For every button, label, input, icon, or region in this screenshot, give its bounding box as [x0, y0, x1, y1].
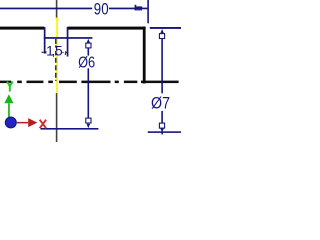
svg-text:Ø7: Ø7 [151, 94, 170, 113]
svg-text:5: 5 [55, 43, 63, 58]
svg-text:Ø6: Ø6 [78, 55, 95, 72]
svg-text:90: 90 [94, 1, 109, 19]
